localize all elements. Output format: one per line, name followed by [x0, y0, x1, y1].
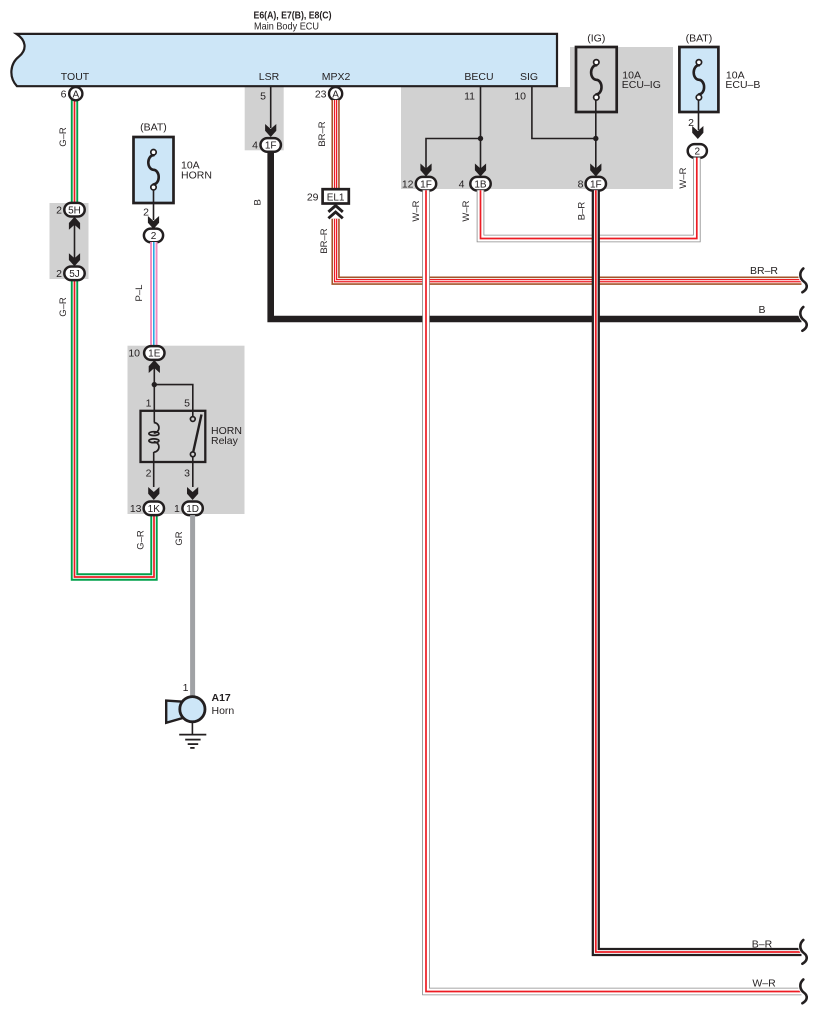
arrow into connector 2	[148, 216, 159, 229]
wire 1E to relay pins 1 and 5	[153, 368, 155, 422]
page break symbol BR-R	[800, 269, 806, 293]
svg-text:5J: 5J	[69, 269, 80, 280]
connector 1F LSR	[261, 138, 281, 152]
relay switch	[193, 415, 201, 453]
connector 1F 12	[416, 177, 436, 191]
svg-text:4: 4	[252, 140, 258, 152]
svg-text:1K: 1K	[148, 504, 161, 515]
svg-text:Main Body ECU: Main Body ECU	[254, 21, 319, 33]
node junction	[152, 382, 157, 387]
svg-text:1B: 1B	[474, 179, 487, 190]
relay coil	[154, 423, 159, 434]
shield gray box LSR	[245, 87, 284, 150]
svg-text:W–R: W–R	[752, 978, 776, 990]
connector 2 (horn fuse)	[144, 229, 163, 243]
svg-text:ECU–B: ECU–B	[725, 79, 760, 91]
svg-text:TOUT: TOUT	[61, 71, 90, 83]
svg-text:29: 29	[307, 191, 319, 203]
svg-text:G–R: G–R	[58, 297, 69, 317]
fuse ECU-B 10A (BAT)	[679, 47, 718, 112]
arrow down into 4-1B	[475, 164, 486, 177]
svg-text:W–R: W–R	[411, 200, 422, 221]
svg-text:B–R: B–R	[577, 202, 588, 221]
svg-text:B: B	[253, 199, 264, 205]
arrow down into 1K	[148, 487, 159, 500]
wire fuse to oval 2	[698, 100, 700, 130]
svg-text:(BAT): (BAT)	[686, 33, 713, 45]
fuse element	[694, 65, 704, 94]
svg-text:5: 5	[260, 91, 266, 103]
svg-text:Relay: Relay	[211, 435, 239, 447]
svg-text:(BAT): (BAT)	[140, 122, 167, 134]
connector 5H	[64, 203, 84, 217]
arrow down into 2	[692, 126, 703, 139]
svg-text:1D: 1D	[186, 504, 199, 515]
svg-text:8: 8	[578, 178, 584, 190]
svg-text:GR: GR	[174, 531, 185, 545]
ECU band Main Body ECU	[11, 34, 557, 86]
svg-text:B: B	[758, 304, 765, 316]
BECU pin 11 wire	[480, 86, 482, 139]
svg-text:Horn: Horn	[212, 705, 235, 717]
wire B thick black	[271, 152, 802, 320]
svg-text:11: 11	[464, 91, 475, 103]
fuse element	[591, 65, 601, 94]
svg-text:2: 2	[151, 231, 157, 242]
connector 5H to 5J double arrow	[74, 221, 76, 262]
wire fuse to oval 2	[153, 190, 155, 220]
svg-text:W–R: W–R	[461, 200, 472, 221]
wire IG fuse to 8-1F	[595, 100, 597, 170]
svg-text:ECU–IG: ECU–IG	[622, 79, 661, 91]
ground symbol	[191, 722, 193, 735]
wire GR gray to horn	[190, 515, 195, 697]
svg-text:B–R: B–R	[752, 939, 773, 951]
svg-text:10: 10	[128, 348, 140, 360]
shielded-wire chevron arrows below EL1	[328, 206, 342, 212]
shield gray box horn relay	[128, 346, 245, 514]
wire G-R TOUT to 5H	[71, 99, 78, 204]
svg-text:A: A	[332, 89, 339, 100]
svg-text:BR–R: BR–R	[317, 121, 328, 146]
BECU branch to 12-1F	[426, 139, 481, 171]
connector 1B 4	[470, 177, 490, 191]
SIG pin 10 wire	[532, 86, 596, 139]
svg-text:SIG: SIG	[520, 71, 538, 83]
shield gray box 5H/5J	[50, 203, 89, 279]
arrow down into 8-1F	[590, 164, 601, 177]
svg-text:2: 2	[56, 204, 62, 216]
svg-text:G–R: G–R	[58, 127, 69, 147]
svg-text:1: 1	[183, 682, 189, 694]
relay HORN Relay box with pin labels	[141, 411, 206, 462]
svg-text:2: 2	[695, 147, 701, 158]
svg-text:2: 2	[146, 468, 152, 480]
svg-text:BR–R: BR–R	[750, 265, 778, 277]
arrow down into 12-1F	[420, 164, 431, 177]
node junction	[478, 136, 483, 141]
svg-text:MPX2: MPX2	[322, 71, 351, 83]
svg-text:4: 4	[459, 178, 465, 190]
svg-text:1F: 1F	[420, 179, 432, 190]
shield gray box BECU/SIG/IG	[401, 87, 673, 189]
connector 5J	[64, 267, 84, 281]
arrow down into 1F	[265, 124, 276, 137]
page break symbol B-R	[800, 940, 806, 964]
svg-text:G–R: G–R	[136, 530, 147, 550]
fuse ECU-IG 10A (IG)	[576, 47, 617, 112]
svg-text:13: 13	[130, 503, 142, 515]
svg-text:P–L: P–L	[134, 285, 145, 302]
svg-text:W–R: W–R	[678, 167, 689, 188]
page break symbol B	[800, 307, 806, 331]
wire BR-R MPX2 to EL1	[331, 100, 339, 190]
fuse element	[148, 155, 158, 184]
connector 1F 8	[586, 177, 606, 191]
svg-text:BECU: BECU	[464, 71, 493, 83]
svg-text:1: 1	[174, 503, 180, 515]
wire P-L to 1E	[150, 242, 157, 346]
svg-text:12: 12	[402, 178, 414, 190]
page break symbol W-R	[800, 980, 806, 1004]
node junction	[593, 136, 598, 141]
svg-text:5: 5	[184, 398, 190, 410]
junction EL1 pin 29	[323, 189, 349, 203]
svg-text:1F: 1F	[590, 179, 602, 190]
wire W-R 1B to 2	[481, 158, 697, 239]
fuse HORN 10A (BAT)	[134, 137, 174, 203]
connector 1K	[144, 502, 164, 516]
connector A pin 6 (TOUT)	[69, 87, 82, 100]
arrow down into 1D	[187, 487, 198, 500]
arrow up into 1E	[149, 360, 160, 373]
connector 1D	[182, 502, 202, 516]
connector A pin 23 (MPX2)	[329, 87, 342, 100]
svg-text:23: 23	[315, 88, 327, 100]
connector 2 BAT	[688, 144, 707, 158]
svg-text:10: 10	[514, 91, 526, 103]
svg-text:HORN: HORN	[181, 169, 212, 181]
wire G-R 5J to 1K	[75, 280, 155, 578]
svg-text:3: 3	[184, 468, 190, 480]
svg-text:6: 6	[61, 88, 67, 100]
svg-text:1E: 1E	[148, 349, 161, 360]
connector 1E	[144, 346, 164, 360]
svg-text:(IG): (IG)	[587, 33, 605, 45]
svg-text:LSR: LSR	[259, 71, 280, 83]
wire W-R 12-1F to bottom right	[426, 190, 802, 991]
svg-text:5H: 5H	[68, 205, 81, 216]
svg-text:EL1: EL1	[327, 192, 345, 203]
wire BR-R EL1 to right edge	[336, 219, 802, 281]
svg-text:1F: 1F	[265, 141, 277, 152]
svg-text:2: 2	[56, 268, 62, 280]
svg-text:A17: A17	[212, 692, 231, 704]
svg-text:1: 1	[146, 398, 152, 410]
svg-text:A: A	[72, 89, 79, 100]
wire B-R 8-1F to bottom right	[596, 190, 802, 952]
svg-text:BR–R: BR–R	[319, 228, 330, 253]
LSR pin 5 wire	[270, 86, 272, 128]
